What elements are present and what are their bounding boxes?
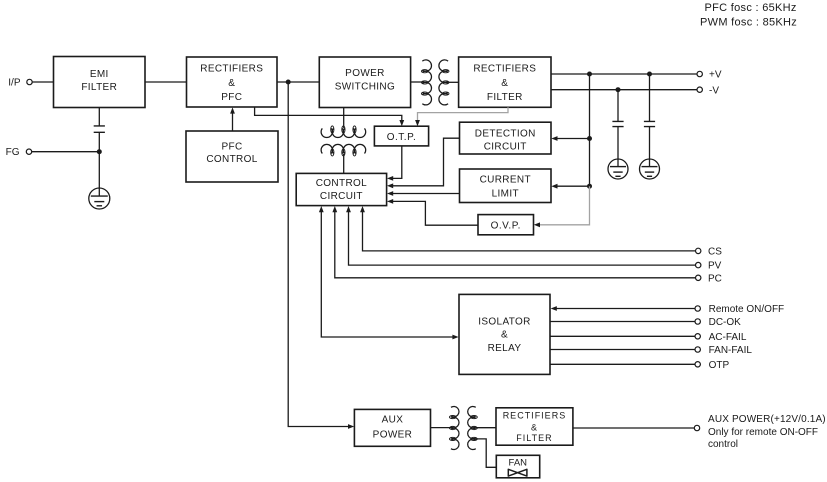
arrowhead into DETECTION CIRCUIT [551, 136, 557, 141]
block FAN with fan symbol [496, 455, 539, 478]
wire capacitor Y2 to earth [617, 127, 619, 159]
svg-text:&: & [228, 78, 235, 89]
label AC-FAIL [709, 332, 747, 343]
svg-text:EMI: EMI [90, 69, 109, 80]
arrowhead PV into CONTROL [346, 206, 351, 212]
wire OVP to CONTROL CIRCUIT [391, 201, 478, 225]
svg-text:control: control [708, 439, 738, 450]
wire capacitor Y3 to earth [649, 127, 651, 159]
svg-text:CIRCUIT: CIRCUIT [484, 141, 527, 152]
arrowhead into OVP [534, 222, 540, 227]
wire RECTIFIERS PFC to POWER SWITCHING [277, 81, 319, 83]
label PC [708, 273, 722, 284]
wire OTP to CONTROL CIRCUIT [391, 146, 402, 179]
note PWM fosc [700, 17, 797, 29]
arrowhead CURRENT LIMIT feedback [387, 191, 393, 196]
wire transformer T3 to aux rectifiers [475, 427, 496, 429]
label FG [6, 147, 20, 158]
terminal +V [697, 71, 702, 76]
svg-text:-V: -V [709, 85, 719, 96]
terminal FG [26, 149, 31, 154]
terminal I/P [27, 79, 32, 84]
note PFC fosc [705, 2, 797, 14]
block AUX POWER [354, 409, 430, 446]
svg-text:SWITCHING: SWITCHING [335, 82, 395, 93]
wire aux output [573, 427, 694, 429]
arrowhead into AUX POWER [348, 424, 354, 429]
wire -V rail [551, 89, 697, 91]
svg-text:&: & [501, 330, 508, 341]
svg-text:RECTIFIERS: RECTIFIERS [200, 64, 263, 75]
svg-text:DC-OK: DC-OK [709, 317, 742, 328]
capacitor Y2 [612, 121, 623, 126]
wire POWER SWITCHING to transformer T1 [411, 81, 424, 83]
arrowhead into CURRENT LIMIT [551, 184, 557, 189]
capacitor Y1 [94, 126, 105, 132]
wire POWER SWITCHING to drive transformer [343, 108, 345, 128]
wire sense to CURRENT LIMIT [555, 185, 590, 187]
svg-text:PV: PV [708, 261, 722, 272]
transformer T3 primary winding [449, 406, 459, 449]
svg-text:RECTIFIERS: RECTIFIERS [473, 64, 536, 75]
label OTP [709, 360, 730, 371]
wire EMI FILTER to RECTIFIERS PFC [145, 81, 187, 83]
wire AC-FAIL [550, 335, 695, 337]
block OTP [374, 126, 428, 146]
svg-text:AUX POWER(+12V/0.1A): AUX POWER(+12V/0.1A) [708, 414, 826, 425]
wire drive transformer to CONTROL CIRCUIT [343, 154, 345, 174]
wire +V to capacitor Y3 [649, 74, 651, 121]
terminal FAN-FAIL [695, 347, 700, 352]
svg-text:CONTROL: CONTROL [206, 154, 257, 165]
arrowhead PC into CONTROL [332, 206, 337, 212]
terminal Remote ON/OFF [695, 306, 700, 311]
svg-text:FAN: FAN [509, 457, 528, 468]
wire bus to AUX POWER [288, 82, 350, 427]
block CONTROL CIRCUIT [296, 173, 386, 205]
arrowhead Remote into ISOLATOR [551, 306, 557, 311]
label I/P [8, 78, 21, 89]
junction +V sense [587, 72, 592, 77]
arrowhead into CONTROL from isolator line [319, 206, 324, 212]
svg-text:PC: PC [708, 273, 722, 284]
junction sense DETECTION [587, 136, 592, 141]
arrowhead into RECTIFIERS PFC [230, 107, 235, 113]
svg-text:PFC: PFC [221, 141, 242, 152]
svg-text:FILTER: FILTER [81, 82, 117, 93]
terminal -V [697, 87, 702, 92]
wire OTP signal [550, 363, 695, 365]
wire AUX POWER to transformer T3 [431, 427, 453, 429]
label AUX POWER line1 [708, 414, 826, 425]
wire PFC CONTROL to RECTIFIERS PFC [232, 112, 234, 131]
svg-text:FAN-FAIL: FAN-FAIL [709, 345, 753, 356]
terminal AUX POWER output [694, 425, 699, 430]
wire sense to OVP [538, 186, 590, 225]
terminal PV [696, 262, 701, 267]
wire RECTIFIERS PFC to OTP [255, 107, 402, 122]
junction sense CURRENT LIMIT [587, 184, 592, 189]
wire FG to earth node [32, 151, 100, 153]
label FAN-FAIL [709, 345, 753, 356]
svg-text:&: & [501, 78, 508, 89]
terminal AC-FAIL [695, 334, 700, 339]
svg-text:PWM fosc : 85KHz: PWM fosc : 85KHz [700, 17, 797, 29]
drive transformer T2 secondary [321, 144, 366, 156]
block RECTIFIERS & FILTER [459, 57, 551, 107]
svg-text:Remote ON/OFF: Remote ON/OFF [709, 304, 785, 315]
svg-text:+V: +V [709, 70, 722, 81]
capacitor Y3 [644, 121, 655, 126]
arrowhead into ISOLATOR RELAY [452, 335, 458, 340]
svg-text:I/P: I/P [8, 78, 21, 89]
terminal CS [696, 248, 701, 253]
svg-text:DETECTION: DETECTION [475, 129, 536, 140]
arrowhead OVP feedback [387, 199, 393, 204]
block PFC CONTROL [186, 131, 278, 182]
block RECTIFIERS & PFC [187, 57, 278, 107]
svg-text:AC-FAIL: AC-FAIL [709, 332, 747, 343]
arrowhead CS into CONTROL [360, 206, 365, 212]
terminal PC [696, 275, 701, 280]
svg-text:ISOLATOR: ISOLATOR [478, 317, 530, 328]
wire capacitor to earth [98, 132, 100, 188]
junction FG node [97, 149, 102, 154]
label CS [708, 247, 722, 258]
svg-text:POWER: POWER [373, 429, 413, 440]
block POWER SWITCHING [319, 57, 410, 108]
label Remote ON/OFF [709, 304, 785, 315]
wire transformer T3 to FAN [475, 439, 496, 467]
wire DETECTION CIRCUIT to CONTROL CIRCUIT [391, 138, 459, 186]
transformer T1 primary winding [421, 60, 431, 105]
terminal DC-OK [695, 319, 700, 324]
arrowhead sense into OTP [415, 120, 420, 126]
block AUX RECTIFIERS & FILTER [496, 408, 573, 445]
junction node bus [286, 80, 291, 85]
wire transformer T1 to RECTIFIERS FILTER [446, 81, 458, 83]
junction +V cap [647, 72, 652, 77]
block CURRENT LIMIT [460, 169, 552, 203]
block OVP [478, 215, 534, 235]
svg-text:FILTER: FILTER [516, 433, 552, 443]
earth ground FG [89, 188, 110, 209]
wire sense to DETECTION CIRCUIT [555, 138, 590, 140]
block ISOLATOR & RELAY [459, 294, 550, 374]
wire PV [349, 211, 696, 265]
svg-text:FILTER: FILTER [487, 92, 523, 103]
svg-text:FG: FG [6, 147, 20, 158]
wire CURRENT LIMIT to CONTROL CIRCUIT [391, 193, 459, 195]
arrowhead OTP feedback [387, 176, 393, 181]
svg-text:O.T.P.: O.T.P. [387, 132, 417, 143]
svg-text:PFC fosc : 65KHz: PFC fosc : 65KHz [705, 2, 797, 14]
svg-text:CIRCUIT: CIRCUIT [320, 191, 363, 202]
wire DC-OK [550, 321, 695, 323]
svg-text:POWER: POWER [345, 68, 385, 79]
wire PC [335, 211, 696, 278]
wire Remote ON/OFF [554, 308, 695, 310]
wire EMI FILTER to capacitor [98, 108, 100, 126]
svg-text:LIMIT: LIMIT [492, 188, 519, 199]
junction -V cap [616, 87, 621, 92]
wire RECTIFIERS FILTER to OTP sense [418, 107, 509, 121]
wire -V to capacitor Y2 [617, 90, 619, 122]
arrowhead into OTP left [399, 120, 404, 126]
block EMI FILTER [54, 57, 146, 108]
svg-text:RECTIFIERS: RECTIFIERS [503, 410, 567, 420]
wire +V rail [551, 73, 697, 75]
wire +V sense vertical [589, 74, 591, 186]
wire CONTROL CIRCUIT to ISOLATOR [321, 211, 454, 337]
label PV [708, 261, 722, 272]
svg-text:OTP: OTP [709, 360, 730, 371]
terminal OTP [695, 362, 700, 367]
svg-text:O.V.P.: O.V.P. [491, 220, 521, 231]
wire I/P to EMI FILTER [32, 81, 53, 83]
svg-text:Only for remote ON-OFF: Only for remote ON-OFF [708, 427, 818, 438]
earth ground Y2 [608, 159, 628, 179]
label DC-OK [709, 317, 742, 328]
earth ground Y3 [640, 159, 660, 179]
label +V [709, 70, 722, 81]
svg-text:&: & [531, 422, 538, 432]
svg-text:CURRENT: CURRENT [480, 175, 531, 186]
svg-text:PFC: PFC [221, 92, 242, 103]
transformer T3 secondary winding [468, 406, 478, 449]
label AUX POWER line3 [708, 439, 738, 450]
label AUX POWER line2 [708, 427, 818, 438]
svg-text:AUX: AUX [382, 415, 404, 426]
svg-text:CONTROL: CONTROL [316, 178, 367, 189]
label -V [709, 85, 719, 96]
block DETECTION CIRCUIT [460, 122, 552, 154]
transformer T1 secondary winding [439, 60, 449, 105]
svg-text:RELAY: RELAY [488, 343, 522, 354]
wire CS [363, 211, 696, 251]
svg-text:CS: CS [708, 247, 722, 258]
wire FAN-FAIL [550, 349, 695, 351]
drive transformer T2 primary [321, 126, 366, 138]
arrowhead DETECTION feedback [387, 183, 393, 188]
